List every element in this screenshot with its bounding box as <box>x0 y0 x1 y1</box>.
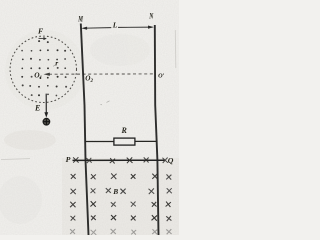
svg-text:P: P <box>66 155 71 164</box>
dimension arrow L between rails <box>81 26 154 30</box>
charged ball (circle-plus symbol) <box>43 118 50 125</box>
arrow E pointing down to the charged ball <box>45 94 47 114</box>
dashed boundary circle of field region O1 <box>10 36 76 102</box>
svg-text:R: R <box>121 126 128 135</box>
svg-text:F: F <box>38 27 44 36</box>
svg-text:E: E <box>34 103 40 112</box>
B-field dots (out of page) inside circle <box>21 40 67 96</box>
B-field crosses row 3 (into page) <box>70 201 171 207</box>
B-field crosses row 4 (into page) <box>71 215 172 221</box>
dashed axis line O1 to O' with arrowhead at O1 <box>49 73 155 75</box>
rail P-Q <box>73 159 165 161</box>
wire with resistor R between rails <box>85 140 157 142</box>
B-field crosses row 2 (into page) <box>70 188 171 194</box>
svg-text:O′: O′ <box>158 73 164 80</box>
right rail N-Q <box>155 25 159 235</box>
svg-text:M: M <box>77 14 83 24</box>
crosses on rail PQ <box>73 157 168 163</box>
arrow at top of circle (direction F) <box>39 37 44 39</box>
svg-text:Q: Q <box>168 156 174 165</box>
svg-text:N: N <box>148 11 154 20</box>
small tick under r <box>53 65 55 67</box>
B-field crosses row 1 (into page) <box>71 173 172 179</box>
svg-text:B: B <box>112 187 118 196</box>
left rail M-P <box>81 24 89 236</box>
svg-text:L: L <box>112 21 118 30</box>
B-field crosses row 5 (into page) <box>70 229 172 235</box>
resistor R body <box>114 138 135 145</box>
